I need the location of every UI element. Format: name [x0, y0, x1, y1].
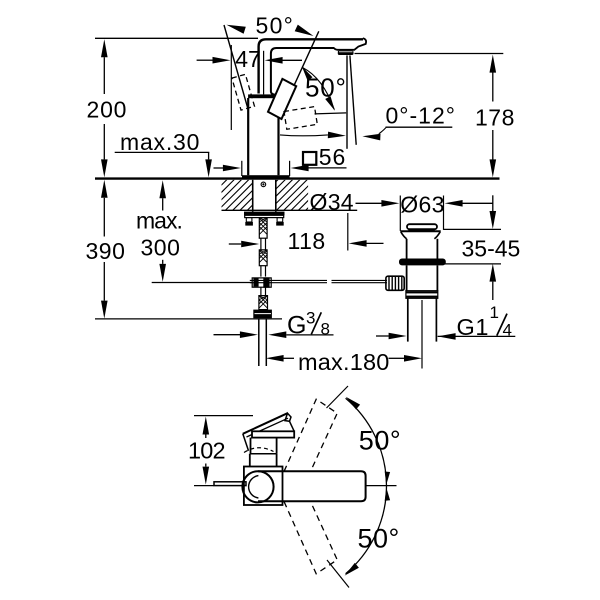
- svg-text:4: 4: [503, 321, 512, 340]
- svg-text:50°: 50°: [256, 13, 295, 39]
- svg-text:Ø34: Ø34: [310, 189, 354, 215]
- svg-text:max.30: max.30: [120, 129, 200, 155]
- svg-text:G: G: [287, 312, 306, 340]
- svg-text:0°-12°: 0°-12°: [386, 102, 456, 128]
- svg-text:max.: max.: [136, 208, 182, 234]
- svg-text:35-45: 35-45: [462, 235, 521, 261]
- svg-text:8: 8: [321, 320, 330, 339]
- svg-text:102: 102: [188, 438, 225, 464]
- svg-text:1: 1: [490, 303, 499, 322]
- svg-text:300: 300: [141, 235, 181, 261]
- svg-text:50°: 50°: [305, 72, 347, 102]
- svg-text:178: 178: [475, 105, 515, 131]
- svg-text:200: 200: [87, 96, 128, 122]
- svg-text:50°: 50°: [358, 524, 400, 554]
- svg-text:56: 56: [319, 144, 346, 170]
- svg-text:390: 390: [86, 238, 126, 264]
- svg-text:3: 3: [306, 309, 315, 328]
- svg-text:118: 118: [288, 228, 326, 254]
- svg-text:G1: G1: [457, 314, 490, 340]
- svg-text:50°: 50°: [359, 426, 401, 456]
- svg-text:47: 47: [235, 46, 261, 72]
- svg-text:Ø63: Ø63: [400, 191, 444, 217]
- svg-text:max.180: max.180: [298, 349, 390, 375]
